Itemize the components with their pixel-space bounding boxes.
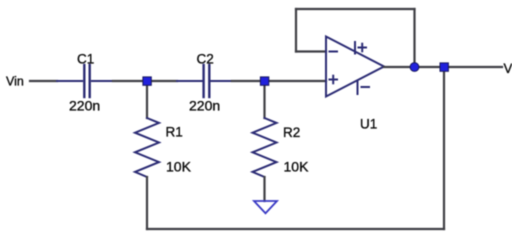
- positive supply pin stub: [354, 42, 356, 54]
- wire R2 top lead: [263, 81, 265, 118]
- capacitor C1: [57, 65, 113, 97]
- svg-text:10K: 10K: [166, 159, 192, 175]
- output junction dot: [410, 63, 419, 72]
- ground: [254, 201, 277, 213]
- wire op-amp output: [384, 66, 502, 68]
- svg-text:10K: 10K: [284, 159, 310, 175]
- non-inverting input marker: [330, 79, 338, 81]
- svg-text:V: V: [504, 61, 512, 76]
- wire right feedback riser: [443, 67, 445, 229]
- wire feedback right drop: [413, 9, 415, 67]
- capacitor C2: [177, 65, 232, 97]
- wire C1 to node A: [113, 80, 147, 82]
- svg-text:R1: R1: [166, 125, 183, 140]
- svg-text:220n: 220n: [69, 98, 100, 114]
- inverting input marker: [330, 51, 338, 53]
- resistor R1: [135, 118, 159, 177]
- wire bottom feedback rail: [147, 228, 444, 230]
- svg-text:R2: R2: [283, 125, 300, 140]
- node A junction: [143, 77, 151, 85]
- svg-text:C1: C1: [77, 52, 94, 67]
- output branch junction: [440, 63, 448, 71]
- op-amp U1: [326, 37, 384, 97]
- node B junction: [260, 77, 268, 85]
- svg-text:C2: C2: [197, 52, 214, 67]
- wire node B to op-amp non-inverting input: [265, 80, 326, 82]
- svg-text:Vin: Vin: [6, 75, 24, 89]
- svg-text:220n: 220n: [189, 98, 220, 114]
- wire R1 bottom to feedback rail: [146, 177, 148, 229]
- wire node A to C2: [147, 80, 177, 82]
- negative supply polarity mark: [362, 86, 370, 88]
- negative supply pin stub: [357, 81, 359, 94]
- svg-text:U1: U1: [360, 117, 377, 132]
- wire R2 bottom lead: [263, 177, 265, 201]
- positive supply polarity mark: [359, 47, 367, 49]
- wire feedback left riser: [295, 9, 297, 52]
- wire feedback top rail: [296, 8, 415, 10]
- wire feedback left segment to inverting input: [296, 50, 326, 52]
- wire C2 to node B: [232, 80, 265, 82]
- resistor R2: [253, 118, 277, 177]
- wire Vin to C1: [30, 80, 57, 82]
- wire R1 top lead: [146, 81, 148, 118]
